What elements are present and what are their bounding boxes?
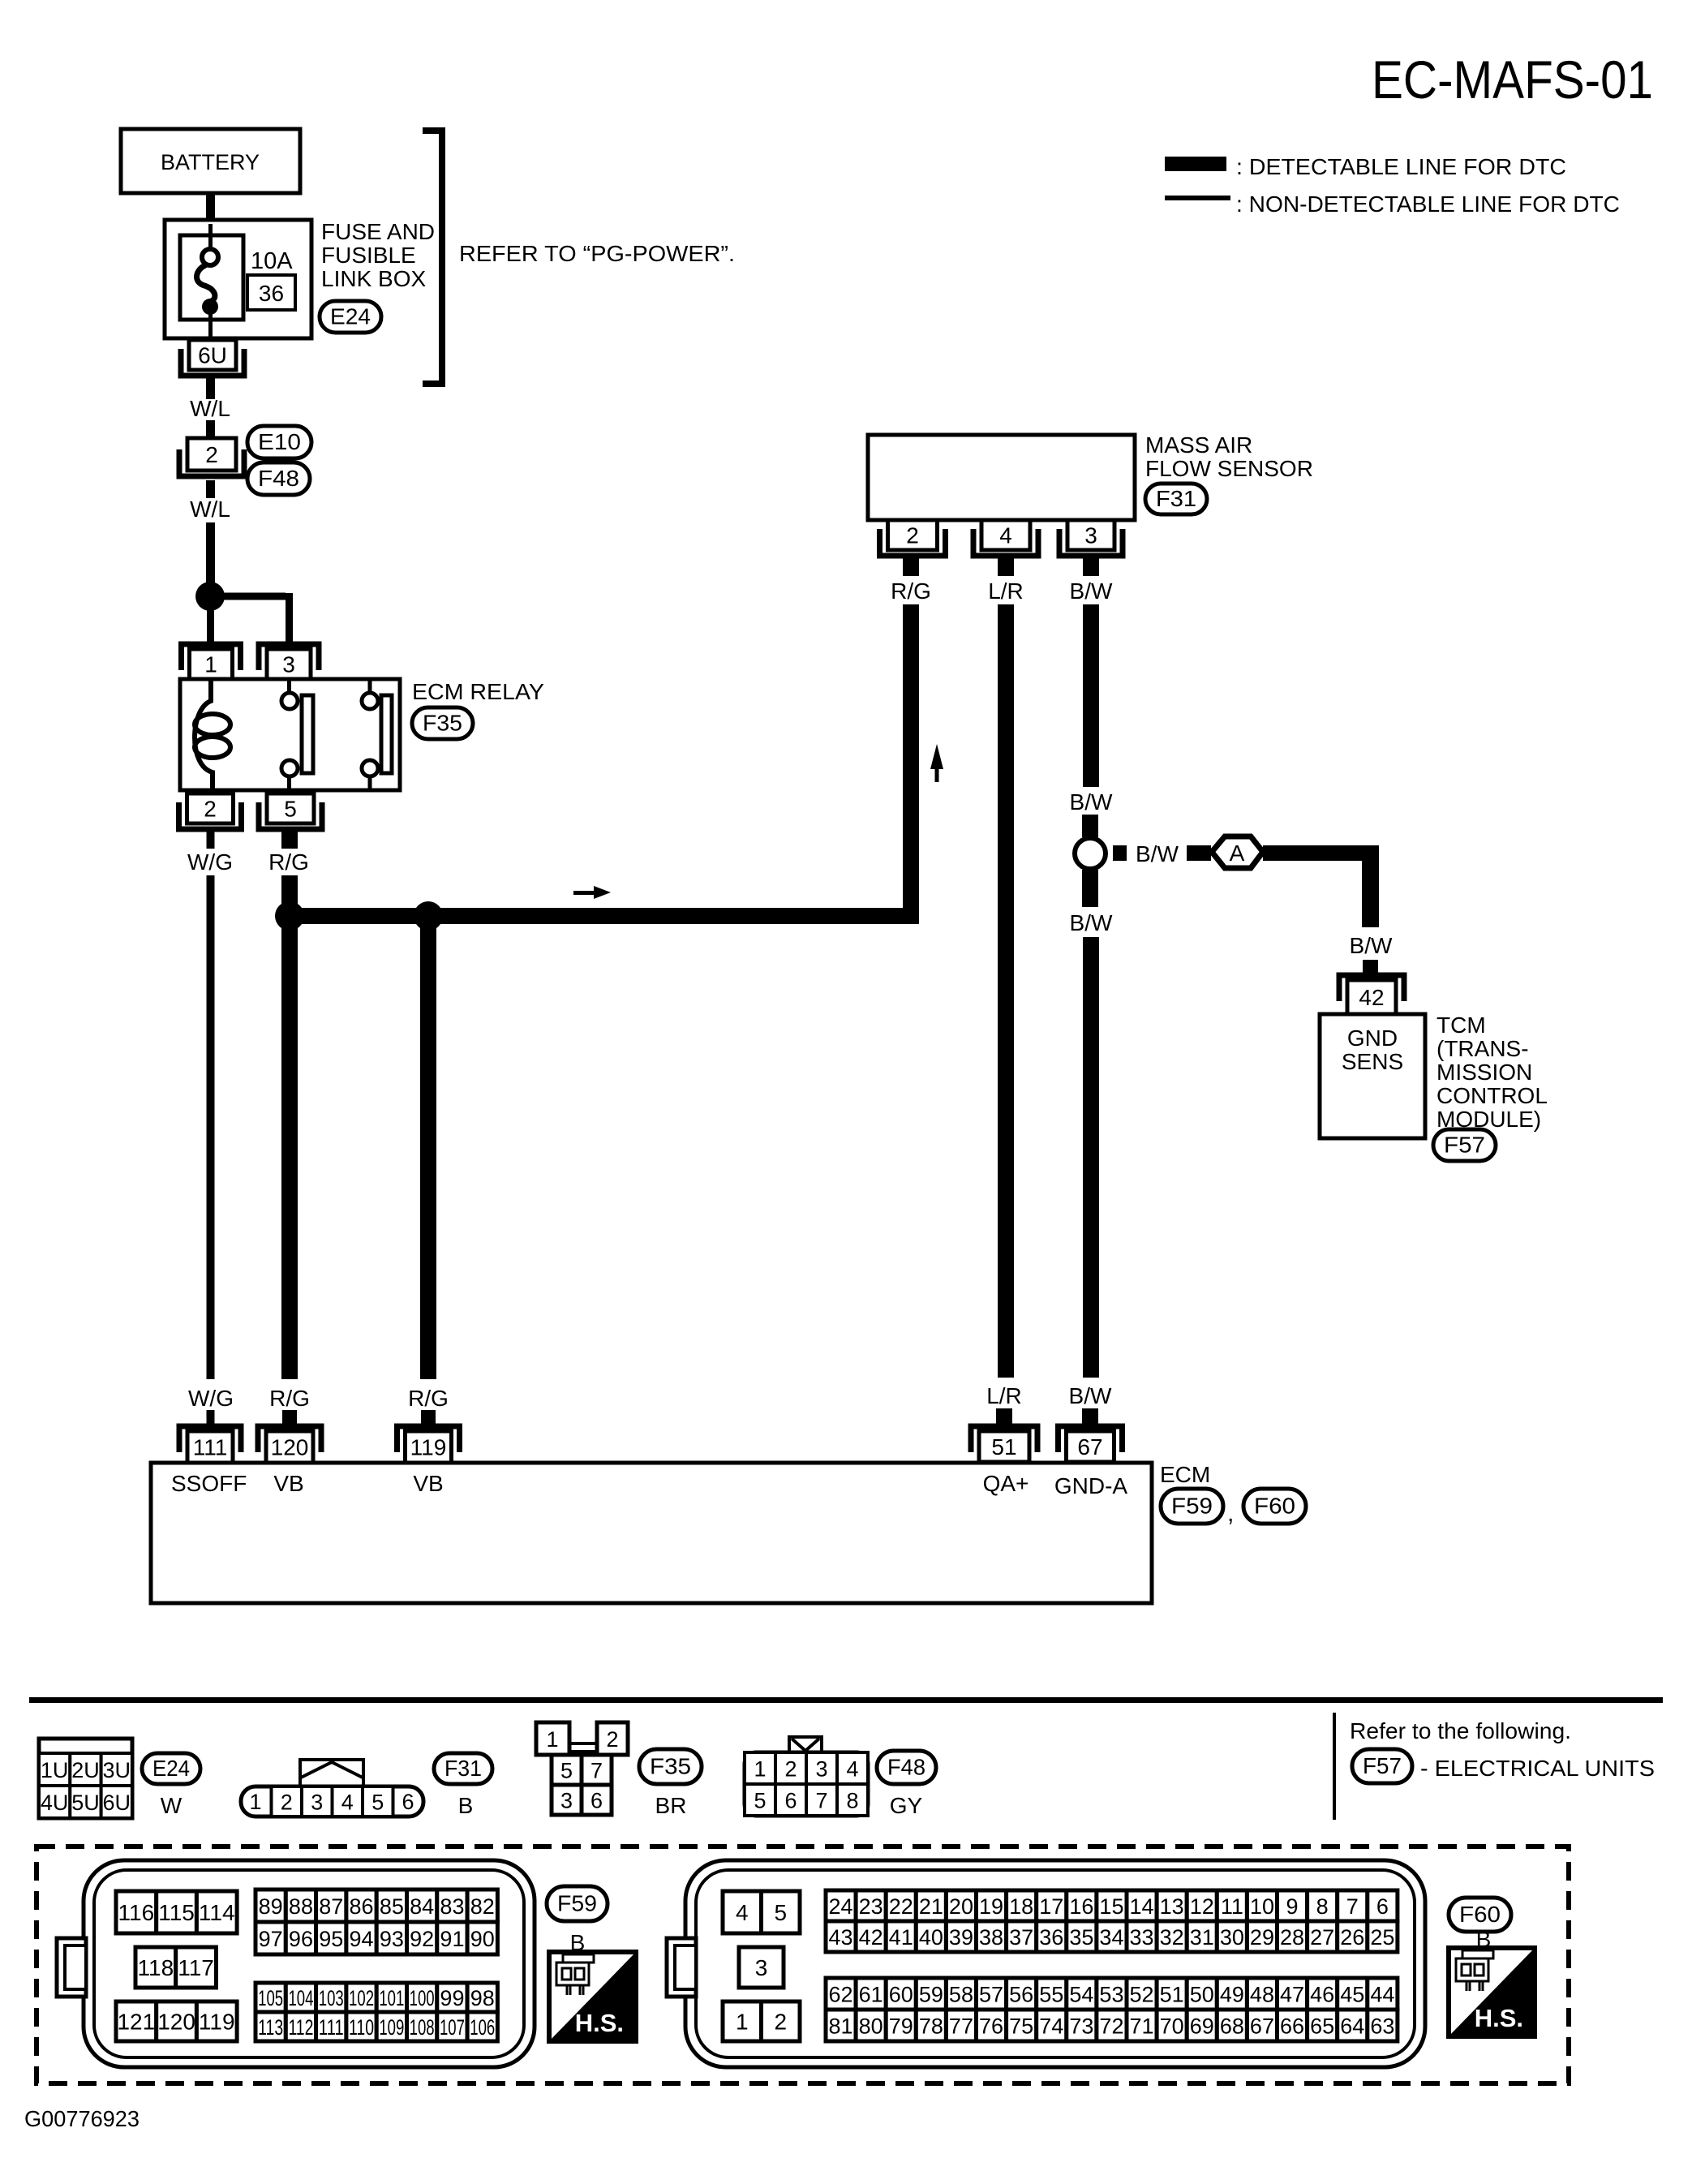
MAFS pin4 stub L/R <box>998 558 1014 576</box>
svg-text:107: 107 <box>440 2015 465 2040</box>
wire junction to relay pin 3 <box>210 593 293 647</box>
svg-text:83: 83 <box>440 1894 464 1919</box>
svg-text:69: 69 <box>1190 2014 1214 2039</box>
wire B/W down to ECM pin 67 <box>1083 937 1099 1378</box>
MAFS pin2 stub R/G <box>903 558 919 576</box>
connector ref E10 <box>247 426 311 458</box>
ECM connector F60 outline <box>667 1860 1425 2067</box>
connector ref F48 <box>877 1751 936 1784</box>
wire L/R down to ECM pin 51 <box>998 604 1014 1378</box>
svg-text:GND: GND <box>1347 1025 1398 1051</box>
svg-text:W/L: W/L <box>190 497 230 522</box>
svg-text:F59: F59 <box>1171 1494 1213 1519</box>
svg-text:31: 31 <box>1190 1925 1214 1950</box>
svg-text:43: 43 <box>829 1925 853 1950</box>
fuse and fusible link box outer <box>165 220 311 338</box>
svg-text:91: 91 <box>440 1927 464 1951</box>
F59 pin grid 118-117 <box>135 1947 176 1988</box>
svg-text:41: 41 <box>889 1925 913 1950</box>
ECM pin 51 <box>971 1426 1037 1462</box>
svg-text:16: 16 <box>1069 1894 1093 1919</box>
svg-text:6U: 6U <box>102 1791 131 1815</box>
svg-text:110: 110 <box>349 2015 374 2040</box>
svg-text:87: 87 <box>319 1894 343 1919</box>
connector detail F31 strip <box>241 1760 423 1816</box>
svg-text:72: 72 <box>1099 2014 1123 2039</box>
svg-text:39: 39 <box>949 1925 973 1950</box>
svg-text:86: 86 <box>350 1894 374 1919</box>
svg-text:42: 42 <box>1359 985 1384 1010</box>
svg-text:116: 116 <box>118 1900 155 1925</box>
svg-text:F48: F48 <box>887 1755 925 1780</box>
svg-text:59: 59 <box>919 1983 943 2007</box>
svg-text:113: 113 <box>258 2015 283 2040</box>
svg-text:32: 32 <box>1160 1925 1184 1950</box>
svg-text:H.S.: H.S. <box>575 2009 624 2037</box>
battery box <box>121 129 300 193</box>
svg-text:98: 98 <box>470 1986 495 2010</box>
connector ref F59 <box>1161 1489 1223 1524</box>
dashed border box <box>37 1847 1569 2083</box>
svg-text:70: 70 <box>1160 2014 1184 2039</box>
svg-text:109: 109 <box>379 2015 404 2040</box>
svg-text:4: 4 <box>341 1791 354 1815</box>
connector ref F31 <box>434 1753 492 1784</box>
wire relay pin2 stub (W/G) <box>207 830 215 849</box>
F60 pin grid 1-2 <box>723 2001 762 2041</box>
fuse element box <box>180 235 243 320</box>
MAFS pin3 stub B/W <box>1083 558 1099 576</box>
connector ref F35 <box>412 707 473 739</box>
svg-text:10: 10 <box>1250 1894 1274 1919</box>
svg-text:5: 5 <box>284 797 297 822</box>
svg-text:111: 111 <box>193 1435 228 1460</box>
svg-text:111: 111 <box>319 2015 344 2040</box>
svg-text:3: 3 <box>560 1789 573 1813</box>
fuse 36 10A symbol <box>197 224 218 338</box>
svg-text:ECM RELAY: ECM RELAY <box>412 679 544 704</box>
svg-text:46: 46 <box>1310 1983 1334 2007</box>
wire stub into TCM pin 42 <box>1363 960 1378 978</box>
wire R/G junction1 down to ECM pin 120 <box>281 924 298 1379</box>
svg-text:58: 58 <box>949 1983 973 2007</box>
H.S. symbol F59 <box>549 1952 636 2041</box>
wire R/G relay to junction <box>281 875 298 915</box>
svg-text:L/R: L/R <box>986 1383 1022 1408</box>
svg-text:FUSE AND: FUSE AND <box>321 219 435 244</box>
F59 pin grid 105-106 <box>256 1983 286 2012</box>
svg-text:5: 5 <box>560 1759 573 1783</box>
connector 6U <box>181 340 244 376</box>
flow arrow right <box>573 886 611 899</box>
wire A to TCM corner <box>1263 845 1379 927</box>
connector ref F57 <box>1352 1749 1412 1783</box>
splice circle B/W <box>1075 838 1106 869</box>
svg-text:- ELECTRICAL UNITS: - ELECTRICAL UNITS <box>1420 1756 1655 1781</box>
svg-text:7: 7 <box>1346 1894 1359 1919</box>
legend non-detectable line sample <box>1165 196 1230 200</box>
svg-text:84: 84 <box>410 1894 434 1919</box>
wire battery to fuse box <box>206 193 215 221</box>
svg-text:F48: F48 <box>258 466 299 491</box>
relay coil <box>195 679 230 790</box>
svg-text:B/W: B/W <box>1069 1383 1112 1408</box>
svg-text:60: 60 <box>889 1983 913 2007</box>
svg-text:,: , <box>1227 1500 1234 1527</box>
connector ref F35 <box>639 1749 702 1784</box>
svg-text:4: 4 <box>999 523 1012 548</box>
svg-text:EC-MAFS-01: EC-MAFS-01 <box>1372 49 1653 110</box>
relay contact middle <box>281 679 313 790</box>
svg-text:11: 11 <box>1221 1894 1243 1919</box>
stub wires into ECM <box>207 1408 1099 1425</box>
svg-text:F31: F31 <box>1156 486 1196 511</box>
svg-text:29: 29 <box>1250 1925 1274 1950</box>
svg-text:115: 115 <box>158 1900 195 1925</box>
svg-text:3: 3 <box>311 1791 323 1815</box>
svg-text:1: 1 <box>249 1790 261 1814</box>
svg-text:2: 2 <box>906 523 919 548</box>
svg-text:7: 7 <box>590 1759 603 1783</box>
relay pin 3 <box>259 644 319 679</box>
connector ref F59 <box>547 1886 608 1921</box>
svg-text:W/G: W/G <box>188 1386 234 1411</box>
svg-text:90: 90 <box>470 1927 495 1951</box>
ECM pin 119 <box>397 1426 460 1463</box>
svg-text:94: 94 <box>350 1927 374 1951</box>
svg-text:19: 19 <box>979 1894 1003 1919</box>
svg-text:2: 2 <box>204 797 217 822</box>
svg-text:F60: F60 <box>1459 1902 1501 1927</box>
svg-text:H.S.: H.S. <box>1475 2004 1523 2032</box>
connector ref F31 <box>1145 484 1207 514</box>
svg-text:10A: 10A <box>251 248 293 274</box>
svg-text:SENS: SENS <box>1342 1049 1403 1074</box>
F59 pin grid 121-119 <box>116 2001 157 2041</box>
svg-text:75: 75 <box>1009 2014 1033 2039</box>
svg-text:25: 25 <box>1370 1925 1394 1950</box>
svg-text:79: 79 <box>889 2014 913 2039</box>
svg-text:47: 47 <box>1280 1983 1304 2007</box>
svg-text:23: 23 <box>859 1894 883 1919</box>
svg-text:66: 66 <box>1280 2014 1304 2039</box>
svg-text:12: 12 <box>1190 1894 1214 1919</box>
svg-text:F57: F57 <box>1444 1133 1485 1158</box>
wire junction to relay pin 1 <box>207 610 214 647</box>
svg-text:B/W: B/W <box>1070 789 1113 815</box>
svg-text:71: 71 <box>1130 2014 1154 2039</box>
svg-text:38: 38 <box>979 1925 1003 1950</box>
svg-text:17: 17 <box>1039 1894 1063 1919</box>
svg-text:118: 118 <box>138 1955 174 1980</box>
svg-text:B/W: B/W <box>1136 841 1179 866</box>
F60 pin grid 3 <box>739 1947 784 1988</box>
svg-text:8: 8 <box>1316 1894 1329 1919</box>
svg-text:49: 49 <box>1220 1983 1244 2007</box>
svg-text:SSOFF: SSOFF <box>171 1471 247 1496</box>
svg-text:B: B <box>458 1793 474 1818</box>
svg-text:3: 3 <box>1084 523 1097 548</box>
svg-text:20: 20 <box>949 1894 973 1919</box>
svg-text:45: 45 <box>1340 1983 1364 2007</box>
svg-text:103: 103 <box>319 1986 344 2010</box>
junction dot R/G 2 <box>414 901 443 931</box>
svg-text:B: B <box>1476 1927 1492 1952</box>
svg-text:W/L: W/L <box>190 396 230 421</box>
wire E10 to junction (W/L) <box>206 480 215 498</box>
mass air flow sensor box <box>868 435 1135 520</box>
wire relay pin5 stub (R/G) <box>281 830 298 849</box>
svg-text:55: 55 <box>1039 1983 1063 2007</box>
svg-text:82: 82 <box>470 1894 495 1919</box>
svg-text:63: 63 <box>1370 2014 1394 2039</box>
svg-text:61: 61 <box>859 1983 883 2007</box>
svg-text:W: W <box>161 1793 183 1818</box>
svg-text:F35: F35 <box>650 1754 691 1779</box>
svg-text:F35: F35 <box>423 711 462 736</box>
svg-text:102: 102 <box>349 1986 374 2010</box>
svg-text:2U: 2U <box>71 1758 100 1782</box>
svg-text:8: 8 <box>846 1789 858 1813</box>
svg-text:5: 5 <box>774 1900 787 1925</box>
svg-text:44: 44 <box>1370 1983 1394 2007</box>
svg-text:88: 88 <box>289 1894 313 1919</box>
svg-text:F57: F57 <box>1363 1753 1402 1778</box>
fuse number 36 box <box>247 275 295 310</box>
svg-text:35: 35 <box>1069 1925 1093 1950</box>
svg-text:GY: GY <box>890 1793 923 1818</box>
svg-text:89: 89 <box>259 1894 283 1919</box>
svg-text:18: 18 <box>1009 1894 1033 1919</box>
svg-text:119: 119 <box>410 1435 447 1460</box>
svg-text:1: 1 <box>546 1727 558 1752</box>
svg-text:2: 2 <box>774 2010 787 2035</box>
svg-text:78: 78 <box>919 2014 943 2039</box>
refer-to divider line <box>1333 1713 1336 1820</box>
svg-text:120: 120 <box>271 1435 309 1460</box>
svg-text:54: 54 <box>1069 1983 1093 2007</box>
svg-text:VB: VB <box>273 1471 303 1496</box>
svg-text:40: 40 <box>919 1925 943 1950</box>
svg-text:67: 67 <box>1077 1434 1102 1460</box>
svg-text:R/G: R/G <box>891 578 931 604</box>
svg-text:G00776923: G00776923 <box>24 2106 140 2131</box>
svg-text:CONTROL: CONTROL <box>1436 1083 1548 1108</box>
connector ref F57 <box>1433 1129 1496 1161</box>
connector ref F60 <box>1449 1898 1511 1932</box>
svg-text:67: 67 <box>1250 2014 1274 2039</box>
svg-text:81: 81 <box>829 2014 853 2039</box>
svg-text:34: 34 <box>1099 1925 1123 1950</box>
wire into page connector A <box>1187 845 1211 861</box>
ECM box <box>151 1463 1152 1603</box>
svg-text:MASS AIR: MASS AIR <box>1145 432 1252 458</box>
wire W/G down to ECM pin 111 <box>207 875 215 1379</box>
svg-text:36: 36 <box>1039 1925 1063 1950</box>
svg-text:77: 77 <box>949 2014 973 2039</box>
svg-text:3: 3 <box>815 1757 827 1782</box>
svg-text:QA+: QA+ <box>983 1471 1029 1496</box>
svg-text:Refer to the following.: Refer to the following. <box>1350 1718 1571 1743</box>
svg-text:: NON-DETECTABLE LINE FOR DTC: : NON-DETECTABLE LINE FOR DTC <box>1236 191 1620 217</box>
svg-text:37: 37 <box>1009 1925 1033 1950</box>
svg-text:MISSION: MISSION <box>1436 1060 1532 1085</box>
connector ref F48 <box>247 462 310 495</box>
F59 pin grid 89-90 <box>256 1890 286 1922</box>
svg-text:112: 112 <box>288 2015 313 2040</box>
svg-text:GND-A: GND-A <box>1054 1473 1128 1498</box>
svg-text:2: 2 <box>784 1757 797 1782</box>
svg-text:30: 30 <box>1220 1925 1244 1950</box>
connector 2 E10/F48 <box>179 438 244 476</box>
svg-text:(TRANS-: (TRANS- <box>1436 1036 1529 1061</box>
MAFS pin 2 <box>880 520 946 556</box>
svg-text:114: 114 <box>199 1900 235 1925</box>
relay pin 2 <box>179 793 242 829</box>
connector ref F60 <box>1243 1489 1306 1524</box>
svg-text:96: 96 <box>289 1927 313 1951</box>
svg-text:80: 80 <box>859 2014 883 2039</box>
svg-text:14: 14 <box>1130 1894 1154 1919</box>
svg-text:5U: 5U <box>71 1791 100 1815</box>
svg-text:62: 62 <box>829 1983 853 2007</box>
page connector A hexagon <box>1212 836 1263 868</box>
svg-text:27: 27 <box>1310 1925 1334 1950</box>
svg-text:R/G: R/G <box>268 849 309 875</box>
legend detectable line sample <box>1165 157 1226 171</box>
svg-text:51: 51 <box>991 1434 1016 1460</box>
svg-text:6: 6 <box>1376 1894 1389 1919</box>
svg-text:57: 57 <box>979 1983 1003 2007</box>
F60 pin grid 62-63 <box>826 1978 856 2010</box>
relay pin 5 <box>259 793 322 829</box>
svg-text:15: 15 <box>1099 1894 1123 1919</box>
svg-text:L/R: L/R <box>988 578 1024 604</box>
relay pin 1 <box>182 644 241 679</box>
svg-text:93: 93 <box>380 1927 404 1951</box>
svg-text:VB: VB <box>413 1471 443 1496</box>
svg-text:B/W: B/W <box>1350 933 1393 958</box>
svg-text:F31: F31 <box>444 1756 482 1781</box>
junction dot R/G 1 <box>275 901 304 931</box>
svg-text:BR: BR <box>655 1793 687 1818</box>
svg-text:21: 21 <box>919 1894 943 1919</box>
svg-text:1: 1 <box>204 652 217 677</box>
wire 6U to E10 (W/L) <box>206 377 215 399</box>
connector ref E24 <box>142 1753 200 1784</box>
ECM connector F59 outline <box>57 1860 535 2067</box>
svg-text:: DETECTABLE LINE FOR DTC: : DETECTABLE LINE FOR DTC <box>1236 154 1566 179</box>
svg-text:26: 26 <box>1340 1925 1364 1950</box>
svg-text:121: 121 <box>117 2010 155 2035</box>
svg-text:120: 120 <box>157 2010 195 2035</box>
label TCM (TRANSMISSION CONTROL MODULE) <box>1436 1012 1548 1132</box>
svg-text:24: 24 <box>829 1894 853 1919</box>
svg-text:R/G: R/G <box>408 1386 449 1411</box>
svg-text:4: 4 <box>846 1757 858 1782</box>
svg-text:104: 104 <box>288 1986 313 2010</box>
H.S. symbol F60 <box>1449 1948 1535 2036</box>
svg-text:117: 117 <box>178 1955 214 1980</box>
svg-text:13: 13 <box>1160 1894 1184 1919</box>
svg-text:TCM: TCM <box>1436 1012 1486 1038</box>
relay contact right <box>362 679 392 790</box>
svg-text:97: 97 <box>259 1927 283 1951</box>
stub from splice <box>1113 845 1127 861</box>
connector detail F35 <box>536 1722 628 1815</box>
svg-text:50: 50 <box>1190 1983 1214 2007</box>
svg-text:1U: 1U <box>41 1758 69 1782</box>
svg-text:76: 76 <box>979 2014 1003 2039</box>
svg-text:28: 28 <box>1280 1925 1304 1950</box>
svg-text:3: 3 <box>282 652 295 677</box>
svg-text:REFER TO “PG-POWER”.: REFER TO “PG-POWER”. <box>459 241 735 266</box>
svg-text:36: 36 <box>259 281 284 306</box>
svg-text:9: 9 <box>1286 1894 1299 1919</box>
wire B/W MAFS to splice <box>1083 604 1099 787</box>
svg-text:52: 52 <box>1130 1983 1154 2007</box>
svg-text:105: 105 <box>258 1986 283 2010</box>
ECM relay box <box>180 679 400 790</box>
svg-text:2: 2 <box>205 442 218 467</box>
connector ref E24 <box>320 301 381 333</box>
svg-text:6U: 6U <box>198 343 227 368</box>
connector detail E24 grid <box>39 1739 132 1818</box>
svg-text:4: 4 <box>736 1900 749 1925</box>
MAFS pin 3 <box>1059 520 1123 556</box>
ECM pin 111 <box>179 1426 241 1463</box>
svg-text:B/W: B/W <box>1070 910 1113 935</box>
svg-text:F59: F59 <box>557 1891 597 1916</box>
svg-text:5: 5 <box>754 1789 766 1813</box>
svg-text:1: 1 <box>736 2010 749 2035</box>
separator line <box>29 1697 1663 1703</box>
svg-text:106: 106 <box>470 2015 495 2040</box>
svg-text:53: 53 <box>1099 1983 1123 2007</box>
svg-text:E24: E24 <box>152 1756 190 1781</box>
svg-text:2: 2 <box>281 1791 293 1815</box>
connector detail F48 <box>745 1737 868 1816</box>
TCM pin 42 <box>1339 975 1404 1014</box>
flow arrow up <box>930 744 943 782</box>
svg-text:LINK BOX: LINK BOX <box>321 266 426 291</box>
svg-text:100: 100 <box>410 1986 435 2010</box>
svg-text:E24: E24 <box>330 304 371 329</box>
svg-text:48: 48 <box>1250 1983 1274 2007</box>
svg-text:7: 7 <box>815 1789 827 1813</box>
svg-text:A: A <box>1230 840 1245 866</box>
F59 pin grid 116-114 <box>116 1891 157 1933</box>
svg-text:64: 64 <box>1340 2014 1364 2039</box>
MAFS pin 4 <box>973 520 1038 556</box>
svg-text:BATTERY: BATTERY <box>161 150 260 174</box>
svg-text:22: 22 <box>889 1894 913 1919</box>
svg-text:101: 101 <box>379 1986 404 2010</box>
F60 pin grid 24-25 <box>826 1890 856 1921</box>
svg-text:6: 6 <box>784 1789 797 1813</box>
svg-text:5: 5 <box>371 1791 384 1815</box>
F60 pin grid 4-5 <box>723 1891 762 1933</box>
svg-text:119: 119 <box>199 2010 235 2035</box>
svg-text:74: 74 <box>1039 2014 1063 2039</box>
svg-text:3U: 3U <box>102 1758 131 1782</box>
wire R/G up to MAFS pin 2 <box>903 604 919 924</box>
svg-text:FUSIBLE: FUSIBLE <box>321 243 416 268</box>
svg-text:108: 108 <box>410 2015 435 2040</box>
svg-text:85: 85 <box>380 1894 404 1919</box>
svg-text:65: 65 <box>1310 2014 1334 2039</box>
svg-text:R/G: R/G <box>269 1386 310 1411</box>
